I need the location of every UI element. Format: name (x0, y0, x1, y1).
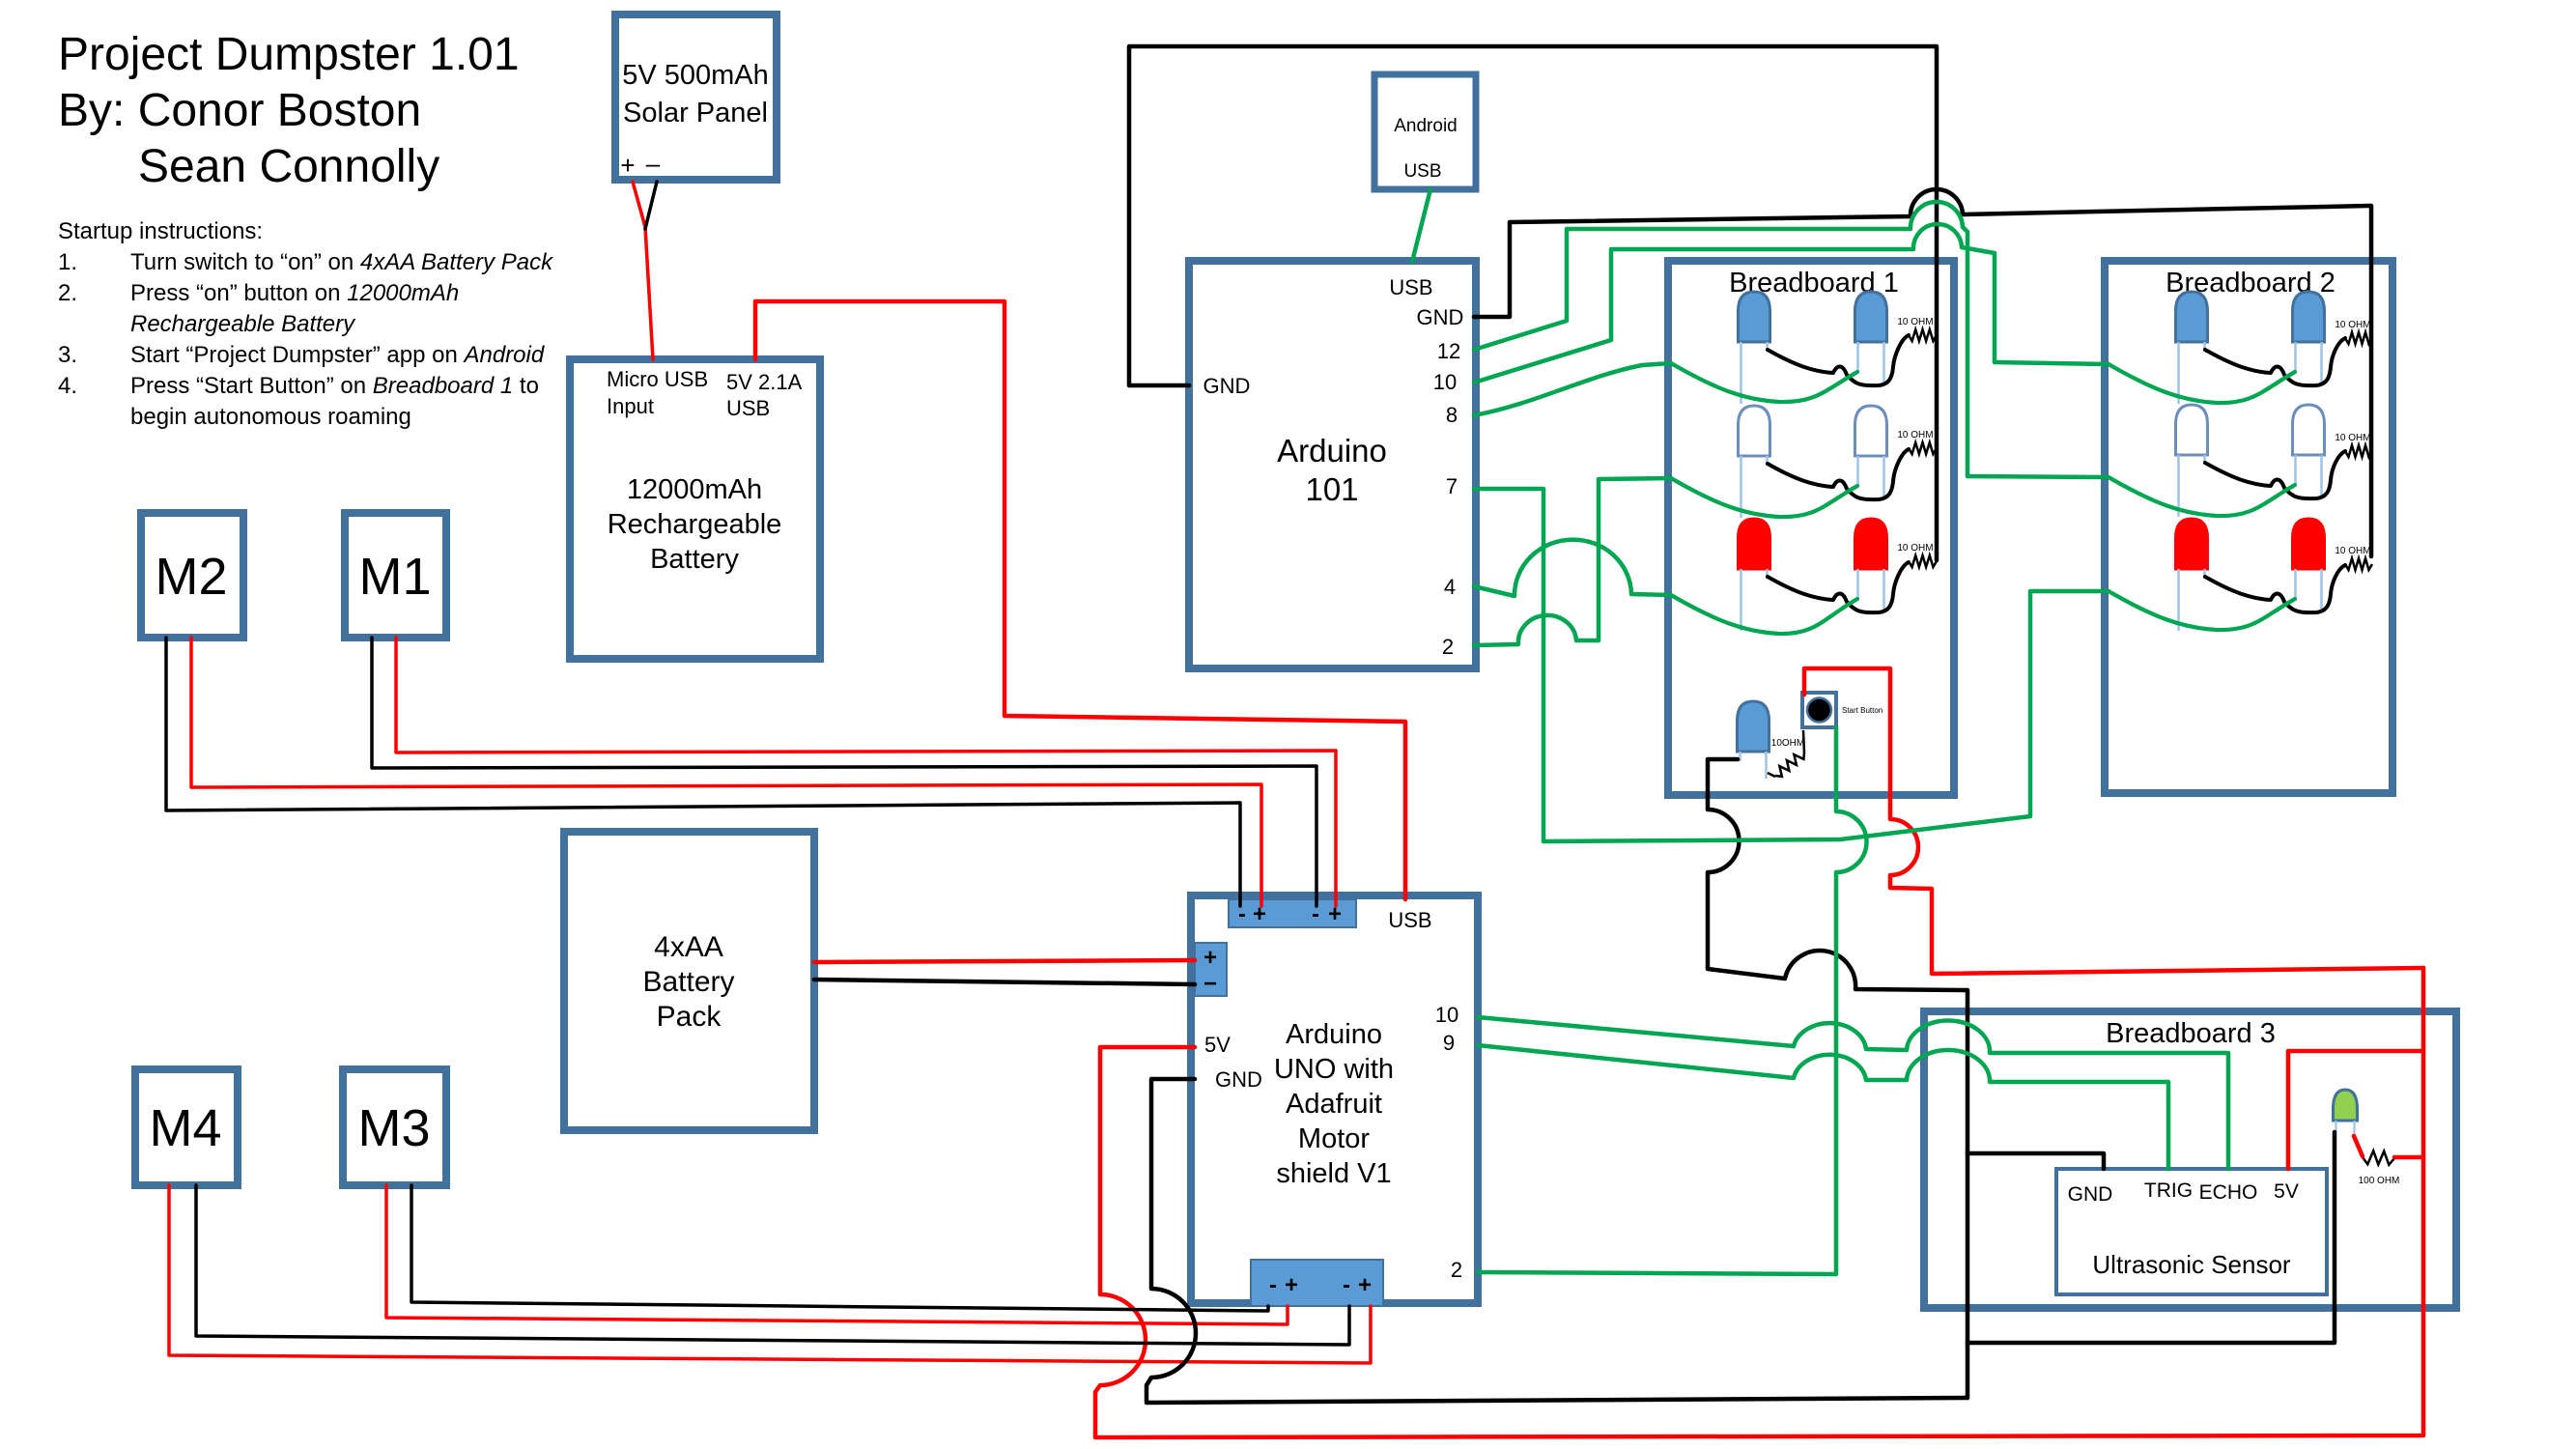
ultrasonic sensor box (2056, 1169, 2327, 1294)
wire red M1 to UNO (396, 638, 1336, 906)
UNO left terminal block (1195, 943, 1227, 996)
solar panel box (615, 14, 777, 180)
svg-text:−: − (1203, 971, 1217, 997)
Breadboard 2 box (2105, 261, 2392, 793)
resistor 100 OHM BB3 (2363, 1151, 2394, 1165)
svg-text:+: + (1358, 1272, 1372, 1298)
svg-text:100 OHM: 100 OHM (2359, 1176, 2400, 1186)
wire green pin4 to BB1 row3 (1474, 540, 1671, 596)
svg-text:Input: Input (607, 394, 654, 418)
svg-text:Arduino: Arduino (1286, 1019, 1382, 1050)
svg-text:+: + (1285, 1272, 1298, 1298)
svg-text:–: – (646, 149, 661, 178)
LED blue BB2 row1 left (2176, 292, 2208, 342)
svg-text:Press “Start Button” on Breadb: Press “Start Button” on Breadboard 1 to (130, 373, 539, 399)
svg-text:M1: M1 (358, 548, 431, 606)
wire green BB1 row1 feed (1671, 363, 1857, 402)
wire red resistor to 5V rail (2394, 1155, 2423, 1160)
svg-text:Rechargeable Battery: Rechargeable Battery (130, 311, 356, 337)
wire black BB2 row3 LED link (2205, 565, 2345, 612)
svg-text:2.: 2. (58, 280, 77, 306)
wire red 4xAA + to UNO (814, 960, 1195, 962)
svg-text:Project Dumpster 1.01: Project Dumpster 1.01 (58, 29, 520, 80)
svg-text:12: 12 (1437, 339, 1460, 363)
wire green pin12 to BB2 row2 (1474, 202, 2109, 477)
motor M2 box (141, 513, 243, 638)
LED blue BB1 bottom (1738, 701, 1769, 752)
LED green BB3 (2334, 1090, 2358, 1121)
wire red start button feed (1804, 668, 2423, 974)
svg-text:Motor: Motor (1298, 1123, 1370, 1154)
start button (1802, 693, 1836, 727)
wire green Android USB to Arduino101 (1412, 189, 1430, 262)
wire green BB2 row3 feed (2109, 591, 2295, 630)
wire green BB2 row1 feed (2109, 364, 2295, 403)
svg-text:-: - (1269, 1272, 1277, 1298)
wire red M3 to UNO (386, 1185, 1288, 1324)
svg-text:Battery: Battery (642, 966, 734, 998)
svg-text:4.: 4. (58, 373, 77, 399)
LED white BB1 row2 right (1855, 406, 1887, 456)
svg-text:shield V1: shield V1 (1276, 1158, 1391, 1189)
svg-text:By: Conor Boston: By: Conor Boston (58, 85, 421, 136)
svg-text:+: + (1253, 901, 1266, 927)
svg-text:Sean Connolly: Sean Connolly (138, 141, 439, 192)
svg-text:GND: GND (2068, 1183, 2113, 1206)
svg-text:-: - (1343, 1272, 1350, 1298)
wire green pin7 to BB2 row3 (1474, 489, 2109, 841)
wire red battery 5V output (755, 301, 1405, 899)
svg-text:2: 2 (1442, 635, 1454, 659)
LED blue BB1 row1 left (1739, 292, 1770, 342)
wire black M3 to UNO (411, 1185, 1268, 1311)
wire black BB1 bottom LED to BB3 GND net (1708, 759, 1967, 1398)
wire green BB1 row3 feed (1671, 595, 1857, 634)
wire black UNO GND rail (1146, 1079, 1967, 1403)
svg-text:1.: 1. (58, 249, 77, 275)
svg-text:5V 500mAh: 5V 500mAh (622, 60, 769, 91)
wire black Arduino101 GND-left to BB1 bus (1129, 46, 1937, 560)
svg-text:Solar Panel: Solar Panel (623, 98, 768, 128)
svg-text:5V: 5V (2274, 1180, 2299, 1203)
wire green pin10 to BB2 row1 (1474, 224, 2109, 383)
wire red M2 to UNO (191, 638, 1261, 906)
motor M1 box (345, 513, 446, 638)
svg-text:Android: Android (1394, 116, 1458, 136)
svg-text:M3: M3 (357, 1099, 430, 1157)
svg-text:7: 7 (1446, 474, 1458, 498)
Breadboard 1 box (1668, 261, 1954, 795)
svg-text:GND: GND (1417, 305, 1464, 329)
Arduino 101 box (1189, 261, 1476, 668)
wire green BB2 row2 feed (2109, 477, 2295, 516)
svg-text:8: 8 (1446, 403, 1458, 427)
svg-text:101: 101 (1305, 471, 1358, 507)
svg-text:Start Button: Start Button (1842, 706, 1882, 715)
svg-text:UNO with: UNO with (1274, 1054, 1394, 1085)
UNO bottom terminal block (1251, 1260, 1383, 1306)
svg-text:Rechargeable: Rechargeable (608, 509, 782, 540)
wire red BB3 5V to sensor (2288, 1051, 2423, 1169)
motor M4 box (135, 1069, 238, 1185)
wire green start button to UNO pin2 (1478, 727, 1867, 1274)
wire green UNO pin9 to sensor TRIG (1478, 1045, 2168, 1169)
svg-text:M4: M4 (149, 1099, 221, 1157)
wire black BB1 row1 LED link (1768, 335, 1909, 385)
Android USB box (1374, 74, 1476, 189)
svg-text:10: 10 (1433, 370, 1457, 394)
LED blue BB2 row1 right (2293, 292, 2325, 342)
svg-text:ECHO: ECHO (2199, 1181, 2258, 1204)
wire green UNO pin10 to sensor ECHO (1478, 1017, 2228, 1169)
svg-text:USB: USB (1389, 275, 1432, 299)
svg-text:TRIG: TRIG (2144, 1179, 2193, 1202)
LED red BB1 row3 right (1855, 519, 1887, 569)
Breadboard 3 box (1924, 1011, 2456, 1308)
svg-text:4: 4 (1444, 575, 1456, 599)
4xAA battery pack box (564, 832, 814, 1130)
svg-text:3.: 3. (58, 342, 77, 368)
motor M3 box (343, 1069, 446, 1185)
LED blue BB1 row1 right (1855, 292, 1887, 342)
svg-text:4xAA: 4xAA (654, 931, 723, 963)
wire black BB1 row2 LED link (1768, 449, 1909, 499)
Arduino UNO with motor shield box (1191, 895, 1478, 1303)
svg-text:Start “Project Dumpster” app o: Start “Project Dumpster” app on Android (130, 342, 545, 368)
svg-text:Turn switch to “on” on 4xAA Ba: Turn switch to “on” on 4xAA Battery Pack (130, 249, 554, 275)
svg-text:USB: USB (1388, 908, 1431, 932)
svg-text:GND: GND (1215, 1067, 1262, 1092)
LED red BB2 row3 left (2176, 519, 2208, 569)
svg-text:5V 2.1A: 5V 2.1A (726, 370, 803, 394)
wire green BB1 row2 feed (1671, 478, 1857, 517)
wire green pin8 to BB1 row1 (1474, 363, 1671, 415)
wire red solar panel + (633, 182, 653, 359)
LED red BB2 row3 right (2293, 519, 2325, 569)
svg-text:12000mAh: 12000mAh (627, 474, 762, 505)
svg-text:Breadboard 3: Breadboard 3 (2106, 1018, 2276, 1049)
svg-text:USB: USB (1403, 161, 1441, 182)
wire black BB3 GND to sensor (1967, 1153, 2104, 1169)
wire black BB2 row2 LED link (2205, 451, 2345, 498)
svg-text:5V: 5V (1204, 1033, 1231, 1057)
wire red UNO 5V rail (1095, 968, 2423, 1437)
svg-text:USB: USB (726, 396, 770, 420)
UNO top terminal block (1229, 899, 1356, 927)
wire red M4 to UNO (169, 1185, 1371, 1363)
svg-text:Battery: Battery (650, 544, 739, 575)
svg-text:GND: GND (1203, 374, 1251, 398)
wire black M2 to UNO (166, 638, 1240, 906)
svg-text:10: 10 (1435, 1003, 1458, 1027)
svg-text:begin autonomous roaming: begin autonomous roaming (130, 404, 411, 430)
wire black solar panel - (645, 182, 657, 229)
svg-text:Press “on” button on 12000mAh: Press “on” button on 12000mAh (130, 280, 459, 306)
LED white BB2 row2 left (2176, 405, 2208, 455)
svg-text:Startup instructions:: Startup instructions: (58, 218, 263, 244)
svg-text:10OHM: 10OHM (1771, 738, 1804, 749)
LED red BB1 row3 left (1739, 519, 1770, 569)
wire black M1 to UNO (372, 638, 1316, 906)
svg-text:+: + (1203, 945, 1217, 971)
wire black BB3 green LED to GND bus (1967, 1132, 2335, 1343)
svg-text:9: 9 (1443, 1031, 1455, 1055)
12000mAh rechargeable battery box (570, 359, 820, 659)
wire red green LED stub (2354, 1136, 2363, 1156)
svg-text:Micro USB: Micro USB (607, 367, 708, 391)
svg-text:Arduino: Arduino (1277, 433, 1387, 469)
svg-text:Adafruit: Adafruit (1286, 1089, 1382, 1120)
wire green Arduino101 pin2 to BB1 row2 (1474, 478, 1671, 645)
wire black 4xAA - to UNO (814, 980, 1195, 984)
svg-text:+: + (620, 151, 635, 180)
wire black BB2 row1 LED link (2205, 338, 2345, 385)
svg-text:Ultrasonic Sensor: Ultrasonic Sensor (2092, 1250, 2291, 1279)
svg-text:Pack: Pack (657, 1001, 722, 1033)
svg-text:M2: M2 (155, 548, 227, 606)
wire black Arduino101 GND-right to BB2 bus (1474, 189, 2371, 556)
svg-text:2: 2 (1451, 1258, 1462, 1282)
LED white BB2 row2 right (2293, 405, 2325, 455)
wire black BB1 row3 LED link (1768, 562, 1909, 612)
LED white BB1 row2 left (1739, 406, 1770, 456)
wire black M4 to UNO (196, 1185, 1349, 1345)
